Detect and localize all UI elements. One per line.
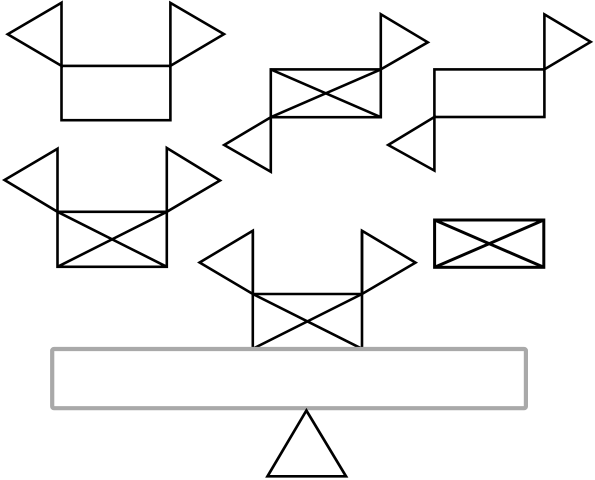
figure 2 diagonal TL-BR bbox=[271, 69, 381, 117]
figure 3 bottom-left triangle bbox=[388, 117, 434, 171]
figure 1 left triangle bbox=[8, 3, 62, 66]
figure 2 top-right triangle bbox=[381, 14, 428, 69]
figure 5 left vertical side bbox=[252, 231, 255, 349]
figure 1 right triangle bbox=[170, 3, 224, 66]
figure 5 diagonal TR-BL bbox=[253, 294, 362, 349]
figure 5 right vertical side bbox=[361, 231, 364, 349]
fulcrum triangle bbox=[268, 411, 347, 477]
figure 5 right triangle bbox=[362, 231, 416, 294]
figure 4 diagonal TL-BR bbox=[58, 212, 167, 267]
figure 4 right triangle bbox=[167, 148, 220, 212]
figure 4 diagonal TR-BL bbox=[58, 212, 167, 267]
figure 4 left triangle bbox=[5, 149, 58, 212]
figure 6 diagonal TR-BL bbox=[435, 220, 544, 267]
figure 4 rectangle bbox=[58, 212, 167, 267]
figure 5 left triangle bbox=[200, 231, 253, 294]
figure 6 diagonal TL-BR bbox=[435, 220, 544, 267]
figure 6 rectangle bbox=[435, 220, 544, 267]
figure 2 bottom-left triangle bbox=[224, 117, 271, 172]
balance beam gray rectangle bbox=[52, 349, 526, 408]
figure 5 diagonal TL-BR bbox=[253, 294, 362, 349]
figure 5 top edge bbox=[253, 293, 362, 296]
figure 2 diagonal TR-BL bbox=[271, 69, 381, 117]
figure 1 rectangle bbox=[62, 66, 171, 120]
figure 3 top-right triangle bbox=[544, 14, 590, 69]
figure 2 rectangle bbox=[271, 69, 381, 117]
figure 3 rectangle bbox=[434, 69, 544, 117]
